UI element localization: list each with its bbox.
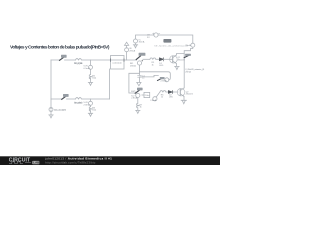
wire pushbutton loop outer <box>140 72 171 80</box>
svg-text:LED: LED <box>169 97 174 99</box>
ground G6 <box>181 100 186 104</box>
switch SW2 cap <box>63 94 69 97</box>
wire AM4 down <box>139 65 141 72</box>
svg-text:http://circuitlab.com/c/7h88v2: http://circuitlab.com/c/7h88v23/bio <box>45 160 95 164</box>
switch SW3 blade <box>136 56 140 60</box>
ground G2 <box>88 113 92 116</box>
svg-text:Voltajes y Corrientes boton de: Voltajes y Corrientes boton de balas pul… <box>10 45 110 51</box>
wire D1 to Q1 <box>164 58 171 60</box>
wire rail to battery <box>50 99 52 107</box>
switch SW5 blade <box>135 90 139 93</box>
wire left rail <box>50 60 52 99</box>
svg-text:28mA: 28mA <box>185 44 191 47</box>
svg-text:1k: 1k <box>140 107 143 109</box>
ammeter AM6 <box>136 93 140 97</box>
wire VM2 to R4 <box>90 105 92 106</box>
wire AM6 to R7 <box>137 98 139 104</box>
battery V1 <box>49 108 53 112</box>
wire AM1 up <box>126 45 128 47</box>
wire battery to ground <box>50 112 52 115</box>
svg-text:1u: 1u <box>142 78 145 80</box>
label V2 callout <box>163 39 171 43</box>
svg-text:2.8mA: 2.8mA <box>161 80 168 83</box>
wire Q2 emitter down <box>183 97 185 101</box>
svg-text:2.8mA: 2.8mA <box>131 97 138 100</box>
voltmeter VM1 <box>89 65 93 69</box>
svg-text:1kΩ: 1kΩ <box>92 78 96 80</box>
ground G4 <box>133 45 137 48</box>
wire R5 to D1 <box>156 58 159 60</box>
wire AM7 diagonal to R6 <box>156 92 160 97</box>
wire bypass to SW5 <box>129 73 140 93</box>
logo waveform <box>9 162 31 164</box>
svg-text:2N2222: 2N2222 <box>178 59 186 61</box>
ammeter AM3 <box>191 43 195 47</box>
callout leader <box>142 94 144 96</box>
callout box readout <box>144 92 150 97</box>
node row1 branch <box>90 60 92 65</box>
wire row1 top <box>51 59 137 61</box>
wire pushbutton SW4 inner <box>140 75 159 77</box>
switch SW5 cap <box>137 88 143 91</box>
ammeter AM7 <box>153 97 157 101</box>
fuse F1 pin marks <box>111 59 125 61</box>
svg-text:2.8m: 2.8m <box>145 95 150 97</box>
diode D2 <box>168 90 172 93</box>
svg-text:2.8mA: 2.8mA <box>84 104 91 107</box>
svg-text:0.5mA: 0.5mA <box>84 67 91 70</box>
ground G5 <box>136 110 140 113</box>
ammeter AM1 <box>125 48 129 52</box>
svg-text:bateria_de_balas(5V): bateria_de_balas(5V) <box>54 108 66 111</box>
wire R4 to ground <box>90 111 92 114</box>
AM4 polarity marks <box>142 60 143 61</box>
node row2 branch <box>90 99 92 101</box>
wire R5 feed <box>143 58 150 60</box>
resistor R2 <box>89 74 91 79</box>
resistor R6 <box>160 91 166 92</box>
supply flag +5V up arrow <box>125 42 129 45</box>
switch SW6 blade <box>184 56 188 58</box>
supply flag down arrow <box>137 82 141 85</box>
svg-text:1k: 1k <box>152 64 155 66</box>
svg-text:conexion: conexion <box>113 63 123 65</box>
wire AM3 down to collector rail <box>184 47 193 88</box>
ammeter AM4 <box>137 61 141 65</box>
svg-text:1k: 1k <box>161 97 164 99</box>
switch SW1 cap <box>61 55 67 58</box>
wire vcc top run <box>136 35 193 43</box>
svg-text:2N2222: 2N2222 <box>186 94 194 96</box>
ammeter AM5 <box>165 78 169 82</box>
ammeter AM2 <box>134 39 138 43</box>
wire R2 to ground <box>90 78 92 82</box>
wire base row2 right <box>166 91 178 93</box>
diode D1 <box>159 58 163 61</box>
switch SW4 cap <box>160 77 165 79</box>
wire Q1 collector up <box>176 54 184 55</box>
switch SW1 blade <box>60 57 65 61</box>
wire VM1 to R2 <box>90 69 92 74</box>
wire row1 into SW3 <box>136 58 138 60</box>
wire cap column <box>139 72 141 83</box>
svg-text:5V_fuente_de_alimentacion: 5V_fuente_de_alimentacion <box>154 44 188 47</box>
node chain1 junction <box>126 52 128 60</box>
svg-text:LAB: LAB <box>33 161 39 165</box>
svg-text:5V: 5V <box>147 37 150 39</box>
svg-text:30mA: 30mA <box>139 41 145 44</box>
resistor R4 <box>89 107 91 112</box>
wire row2 <box>51 98 110 100</box>
svg-text:boton_de_balas: boton_de_balas <box>74 62 83 65</box>
resistor R5 <box>150 58 156 59</box>
svg-text:LED: LED <box>159 65 164 67</box>
transistor Q1 <box>170 55 178 64</box>
svg-text:2.8mA: 2.8mA <box>150 99 157 102</box>
wire R7 to ground <box>137 109 139 111</box>
wire AM2 to ground <box>135 43 137 45</box>
svg-text:boton_pulsado: boton_pulsado <box>74 101 83 104</box>
ground G3 <box>49 115 53 118</box>
svg-text:28mA: 28mA <box>129 49 135 52</box>
switch SW4 blade <box>158 79 162 81</box>
svg-text:1kΩ: 1kΩ <box>92 110 96 112</box>
resistor R7 <box>137 103 139 108</box>
resistor R3 row2 <box>76 98 82 99</box>
fuse box F1 <box>111 56 125 70</box>
transistor Q2 <box>177 88 185 97</box>
svg-text:28mA: 28mA <box>185 70 191 73</box>
resistor R1 row1 <box>76 59 82 60</box>
switch SW3 cap <box>139 53 146 56</box>
V2 plus minus <box>153 33 160 34</box>
footer bar <box>0 156 220 165</box>
voltmeter VM2 <box>89 101 93 105</box>
voltage source V2 <box>154 33 158 37</box>
switch SW2 blade <box>62 96 67 100</box>
svg-text:28mA: 28mA <box>130 64 136 67</box>
capacitor C1 plates <box>138 75 142 77</box>
wire Q1 emitter down <box>175 64 177 67</box>
ground G7 <box>175 66 180 69</box>
logo LAB box <box>32 161 39 164</box>
battery V1 plus mark <box>50 108 52 111</box>
wire riser row2 to box <box>109 69 111 99</box>
switch SW6 cap <box>185 54 191 56</box>
ground G1 <box>88 82 92 85</box>
